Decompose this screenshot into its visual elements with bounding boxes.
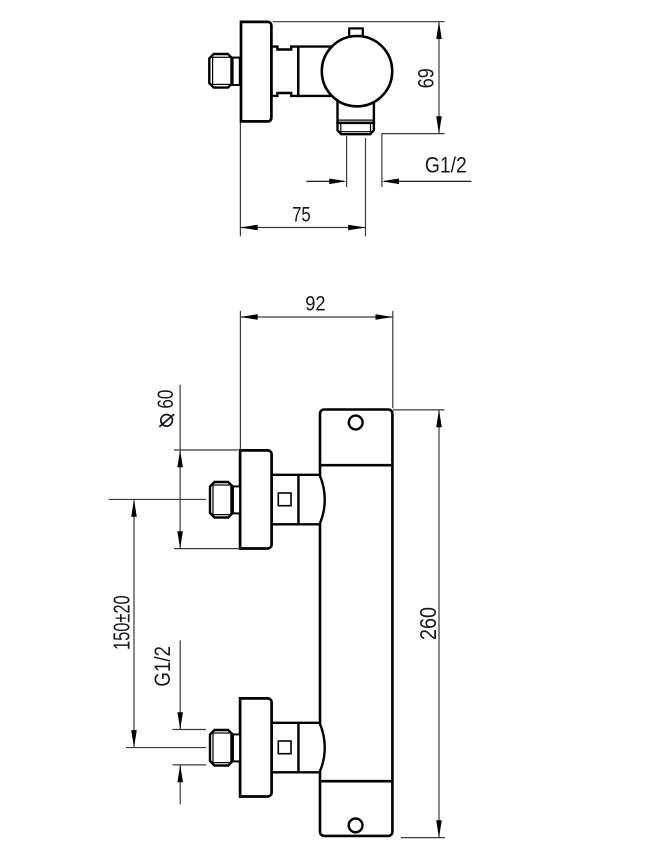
main body bar xyxy=(320,410,392,836)
arrow 69 bottom xyxy=(436,116,442,133)
upper cartridge housing (D-shaped, bulges into body) xyxy=(298,475,324,525)
bottom screw hole xyxy=(349,819,363,833)
extension line 75 left (flange edge) xyxy=(239,123,241,237)
svg-text:G1/2: G1/2 xyxy=(425,153,467,177)
extension line O60 bottom xyxy=(174,548,240,550)
arrow G1/2 down xyxy=(177,712,183,729)
extension line 260 top xyxy=(393,409,445,411)
dimension 69 line xyxy=(438,22,440,134)
tab on knob top xyxy=(349,28,363,37)
svg-text:75: 75 xyxy=(292,203,311,226)
extension line 260 bottom xyxy=(401,837,445,839)
extension line 75 right (outlet centerline) xyxy=(365,138,367,236)
top screw hole xyxy=(349,416,363,430)
arrow 92 left xyxy=(240,314,257,320)
outlet spout (side view) xyxy=(338,98,374,134)
lower connector block xyxy=(272,723,299,773)
lower set-screw square xyxy=(278,741,291,754)
arrow 75 right xyxy=(348,225,365,231)
body lower separation line xyxy=(320,780,392,783)
extension line bottom right of outlet (69 dim) xyxy=(382,134,445,188)
G1/2 leader right arrow (top view) xyxy=(384,180,471,182)
arrow 150 bottom xyxy=(131,730,137,747)
extension line left of G1/2 (top view) xyxy=(346,136,348,187)
G1/2 leader left arrow (top view) xyxy=(306,180,344,182)
hex inlet fitting (side view) xyxy=(209,54,239,88)
extension line 92 right xyxy=(392,311,394,408)
extension line O60 top xyxy=(174,449,238,451)
dimension 150+-20 line xyxy=(133,499,135,747)
extension line 92 left xyxy=(239,311,241,449)
arrow G1/2 up xyxy=(177,765,183,782)
lower wall flange (front) xyxy=(240,698,272,796)
upper hex fitting (front) xyxy=(210,482,240,518)
extension line top (69 dim) xyxy=(273,21,445,23)
connecting neck with groove (side view) xyxy=(271,47,298,96)
svg-text:92: 92 xyxy=(305,292,325,316)
svg-text:69: 69 xyxy=(415,68,439,88)
svg-text:60: 60 xyxy=(154,390,179,409)
svg-text:150±20: 150±20 xyxy=(110,595,135,650)
upper connector block xyxy=(272,475,299,525)
dimension G1/2 upper segment xyxy=(179,640,181,729)
arrow O60 bottom xyxy=(177,531,183,548)
thermostat knob (circle) xyxy=(322,36,392,106)
dimension 260 line xyxy=(438,410,440,838)
diameter symbol of O60 xyxy=(161,415,173,427)
body upper separation line xyxy=(320,464,392,467)
extension line G1/2 front bottom xyxy=(173,764,207,766)
lower hex fitting (front) xyxy=(210,730,240,766)
upper wall flange (front) xyxy=(240,450,272,548)
svg-text:260: 260 xyxy=(414,607,441,640)
arrow 92 right xyxy=(376,314,393,320)
extension line G1/2 front top xyxy=(173,729,207,731)
body tube (side view) xyxy=(298,47,331,96)
centerline upper hex xyxy=(109,498,206,500)
upper set-screw square xyxy=(278,493,291,506)
arrow O60 top xyxy=(177,450,183,467)
wall flange (side view) xyxy=(241,22,271,122)
dimension 92 line xyxy=(240,316,392,318)
dimension O60 line xyxy=(179,385,181,549)
arrow 75 left xyxy=(240,225,257,231)
arrow 69 top xyxy=(436,22,442,39)
dimension G1/2 lower segment xyxy=(179,765,181,805)
arrow 260 bottom xyxy=(436,820,442,837)
dimension 75 line xyxy=(240,227,365,229)
arrow 260 top xyxy=(436,410,442,427)
lower cartridge housing (D-shaped) xyxy=(298,723,324,773)
svg-text:G1/2: G1/2 xyxy=(152,646,176,687)
arrow 150 top xyxy=(131,499,137,516)
centerline lower hex xyxy=(126,747,206,749)
